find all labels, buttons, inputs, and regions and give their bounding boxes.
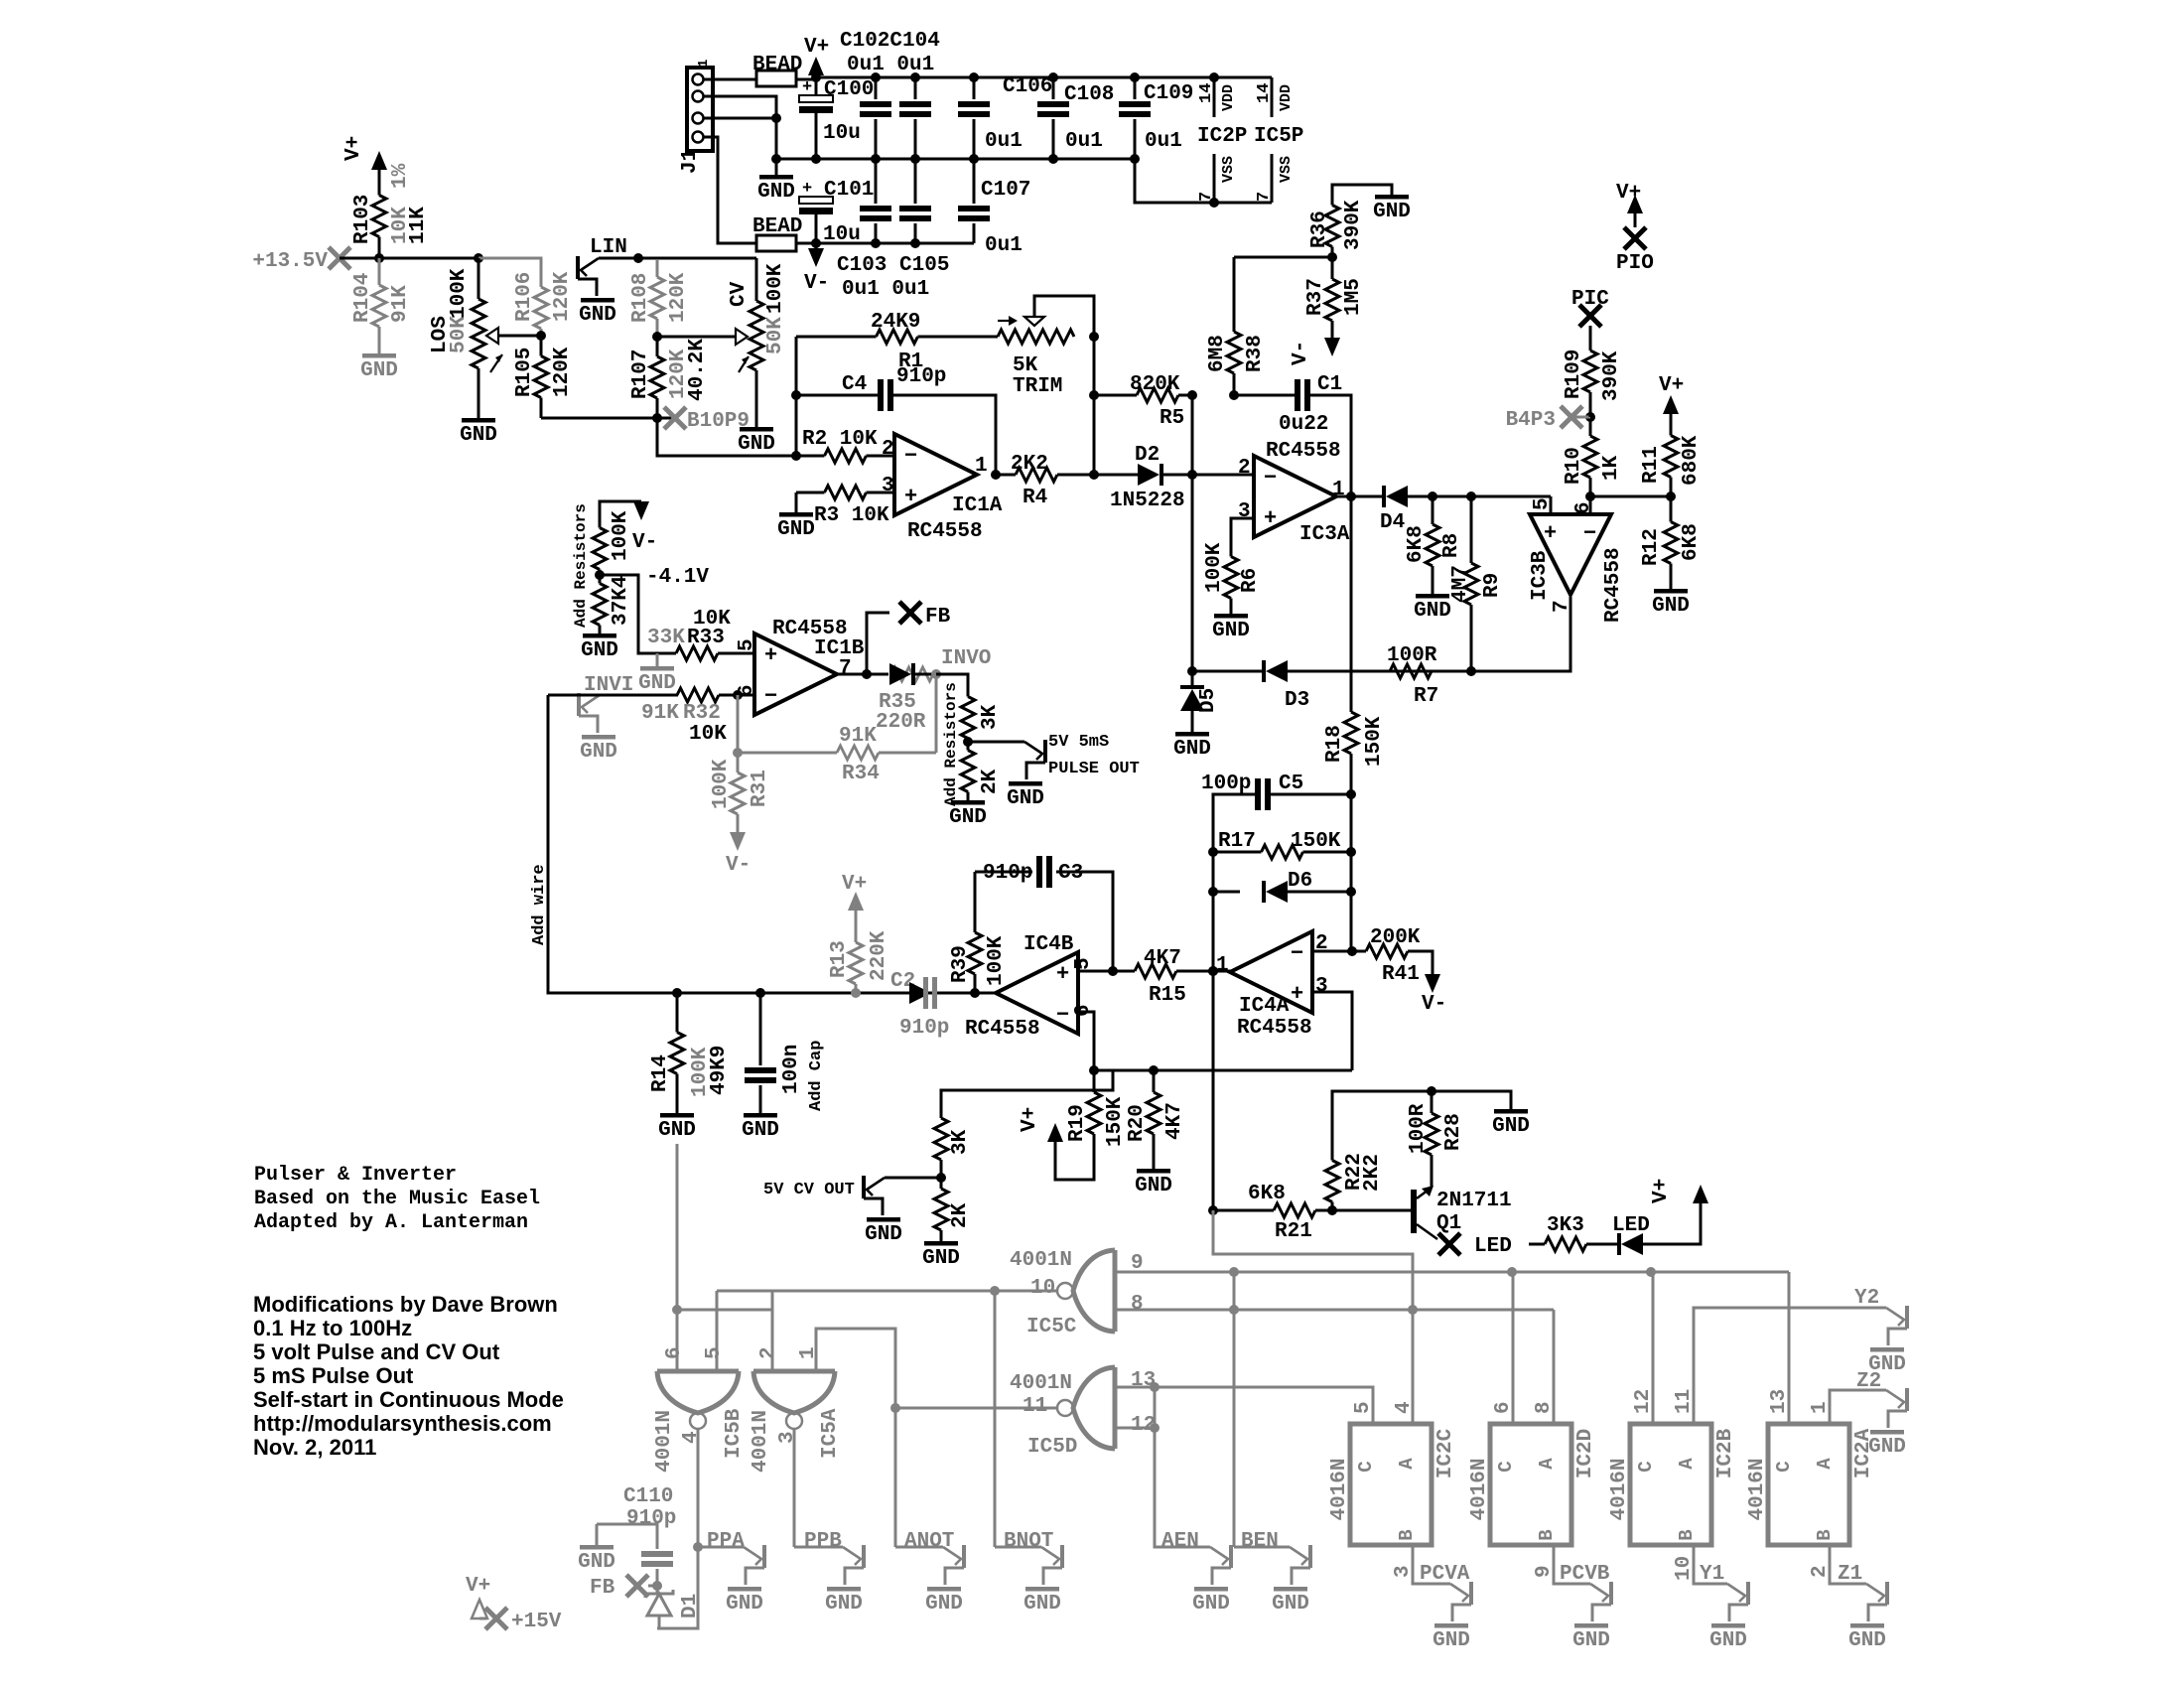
resistor 37K4 (Add Resistors) <box>599 575 602 584</box>
resistor R106 120K (gray) <box>540 280 543 287</box>
svg-text:5: 5 <box>1531 497 1554 510</box>
svg-text:220K: 220K <box>868 930 890 981</box>
IC5P power pins <box>1271 77 1274 117</box>
svg-text:R104: R104 <box>351 273 374 323</box>
svg-text:6K8: 6K8 <box>1248 1183 1286 1205</box>
wire IC3B pin6 row <box>1590 495 1671 498</box>
op-amp IC1B <box>754 633 837 715</box>
svg-text:3: 3 <box>776 1431 799 1444</box>
svg-text:V+: V+ <box>1019 1107 1041 1132</box>
svg-text:D5: D5 <box>1197 688 1220 713</box>
svg-text:5: 5 <box>703 1346 726 1359</box>
svg-text:IC2P: IC2P <box>1197 125 1247 148</box>
wire rail to R106 (gray) <box>478 258 541 280</box>
node FB (gray) <box>626 1575 648 1597</box>
svg-text:+15V: +15V <box>511 1611 562 1633</box>
svg-text:100p: 100p <box>1201 773 1251 795</box>
svg-text:2K2: 2K2 <box>1011 453 1048 476</box>
resistor R20 4K7 <box>1153 1070 1156 1092</box>
ground (R8) <box>1416 594 1449 599</box>
diode D3 <box>1288 670 1390 673</box>
svg-text:C100: C100 <box>824 78 874 101</box>
resistor R18 150K <box>1350 671 1353 712</box>
svg-text:4K7: 4K7 <box>1144 947 1181 970</box>
svg-text:R10: R10 <box>1563 447 1585 485</box>
svg-text:R8: R8 <box>1440 533 1463 558</box>
svg-text:C: C <box>1355 1461 1377 1472</box>
power symbol V- (Add Resistors) <box>633 501 649 520</box>
svg-text:100R: 100R <box>1387 644 1437 667</box>
svg-text:PIO: PIO <box>1616 252 1654 275</box>
svg-text:GND: GND <box>360 359 398 382</box>
svg-text:100K: 100K <box>448 268 471 319</box>
svg-text:R36: R36 <box>1308 211 1331 248</box>
svg-text:GND: GND <box>579 304 616 327</box>
wire J1 pin3 <box>704 117 776 120</box>
resistor R10 1K <box>1589 417 1592 436</box>
svg-text:LED: LED <box>1612 1214 1650 1237</box>
wire IC2B pin11 to Y2 (gray) <box>1694 1308 1886 1424</box>
svg-text:RC4558: RC4558 <box>965 1018 1040 1041</box>
wire INVI row <box>548 694 678 697</box>
svg-text:2K: 2K <box>949 1202 972 1228</box>
svg-text:4016N: 4016N <box>1608 1458 1631 1520</box>
svg-text:3: 3 <box>1392 1565 1415 1578</box>
svg-text:R7: R7 <box>1414 685 1438 708</box>
wire mid vertical <box>1350 794 1353 951</box>
ground (LOS) <box>462 418 495 423</box>
trimpot 5K TRIM <box>998 330 1074 344</box>
resistor R107 120K/40.2K <box>656 337 659 356</box>
node top rail junctions <box>811 72 821 82</box>
svg-text:B: B <box>1814 1529 1836 1540</box>
svg-text:4M7: 4M7 <box>1449 565 1472 603</box>
svg-text:R108: R108 <box>629 273 652 323</box>
svg-text:A: A <box>1676 1458 1698 1470</box>
svg-text:14: 14 <box>1197 83 1216 103</box>
svg-text:3K: 3K <box>979 704 1002 730</box>
switch IC2C 4016N <box>1350 1424 1432 1545</box>
svg-text:IC2D: IC2D <box>1574 1429 1597 1478</box>
wire VSS link <box>1135 159 1272 203</box>
svg-text:4: 4 <box>680 1431 703 1444</box>
ground (C110 gray) <box>596 1524 599 1545</box>
svg-text:GND: GND <box>949 806 987 829</box>
ground (R20) <box>1137 1169 1170 1174</box>
svg-text:2: 2 <box>1809 1565 1832 1578</box>
svg-text:PCVA: PCVA <box>1420 1563 1470 1586</box>
svg-text:R15: R15 <box>1149 984 1186 1007</box>
svg-text:PPB: PPB <box>804 1530 842 1553</box>
svg-text:V-: V- <box>726 854 751 877</box>
ground (D5) <box>1175 732 1209 737</box>
svg-text:3K: 3K <box>949 1129 972 1155</box>
svg-text:0u1: 0u1 <box>985 234 1023 257</box>
capacitor C1 0u22 <box>1234 394 1295 397</box>
svg-text:V+: V+ <box>342 136 365 161</box>
svg-text:10u: 10u <box>823 122 861 145</box>
svg-text:R34: R34 <box>842 763 880 785</box>
svg-text:1: 1 <box>975 455 988 478</box>
svg-text:FB: FB <box>925 606 951 629</box>
svg-text:PCVB: PCVB <box>1560 1563 1610 1586</box>
svg-text:GND: GND <box>742 1119 779 1142</box>
svg-text:0u1 0u1: 0u1 0u1 <box>842 278 929 301</box>
svg-text:C5: C5 <box>1279 773 1303 795</box>
svg-text:C1: C1 <box>1317 373 1342 396</box>
svg-text:0.1 Hz to 100Hz: 0.1 Hz to 100Hz <box>253 1316 412 1340</box>
svg-text:8: 8 <box>1533 1401 1556 1414</box>
svg-text:R13: R13 <box>828 940 851 978</box>
capacitor C5 100p <box>1271 793 1351 796</box>
resistor R2 10K <box>796 455 825 458</box>
svg-text:R9: R9 <box>1481 573 1504 598</box>
svg-text:4016N: 4016N <box>1328 1458 1351 1520</box>
capacitor C3 910p feedback <box>974 872 977 932</box>
svg-text:6K8: 6K8 <box>1405 525 1428 563</box>
svg-text:7: 7 <box>839 657 852 680</box>
wire -4.1V node to R33 <box>600 575 657 653</box>
resistor R12 6K8 <box>1670 496 1673 522</box>
svg-text:11: 11 <box>1023 1395 1047 1418</box>
svg-text:14: 14 <box>1255 83 1274 103</box>
wire to IC3B pin5 <box>1530 495 1551 498</box>
gate IC5C 4001N <box>1113 1250 1118 1332</box>
svg-text:Adapted by A. Lanterman: Adapted by A. Lanterman <box>254 1211 528 1234</box>
wire B10P9 row to R2 <box>657 418 796 456</box>
svg-text:IC2B: IC2B <box>1714 1428 1737 1478</box>
svg-text:FB: FB <box>590 1577 615 1600</box>
resistor 3K3 (LED) <box>1529 1243 1545 1246</box>
svg-text:BEAD: BEAD <box>752 215 802 238</box>
resistor R33 33K/10K <box>657 652 676 655</box>
svg-text:+: + <box>802 78 812 97</box>
resistor R11 680K <box>1670 416 1673 436</box>
transistor Q1 2N1711 <box>1332 1209 1411 1212</box>
svg-text:C: C <box>1773 1461 1795 1472</box>
jack 5V CV OUT <box>885 1177 941 1180</box>
wire IC2B pin12 (gray) <box>1652 1272 1655 1424</box>
svg-text:8: 8 <box>1131 1293 1144 1316</box>
wire R22 to GND hook <box>1332 1091 1511 1152</box>
resistor R28 100R <box>1431 1091 1433 1113</box>
svg-text:D1: D1 <box>679 1594 702 1618</box>
svg-text:R14: R14 <box>649 1055 672 1092</box>
power symbol V- (bottom rail) <box>815 243 818 248</box>
svg-text:R31: R31 <box>749 770 771 807</box>
svg-text:120K: 120K <box>551 347 574 397</box>
svg-text:C108: C108 <box>1064 83 1114 106</box>
svg-text:GND: GND <box>578 1551 615 1574</box>
wire CV wiper to R107/R108 node <box>657 336 736 339</box>
svg-text:6K8: 6K8 <box>1680 523 1703 561</box>
svg-text:0u1: 0u1 <box>1065 130 1103 153</box>
wire IC5A pin2 stub (gray) <box>771 1291 774 1371</box>
ferrite bead BEAD (top) <box>756 70 796 86</box>
svg-text:3K3: 3K3 <box>1547 1214 1584 1237</box>
wire pin12/13 tie down to AEN (gray) <box>1155 1387 1210 1547</box>
wire feedback left vertical <box>795 337 798 456</box>
svg-text:6: 6 <box>1492 1401 1515 1414</box>
jack PPA (gray) <box>698 1546 744 1549</box>
resistor R36 390K <box>1332 185 1392 195</box>
node IC1A output <box>991 470 1001 480</box>
resistor R6 100K <box>1231 518 1254 541</box>
jack PPB (gray) <box>794 1546 843 1549</box>
svg-text:RC4558: RC4558 <box>1602 547 1625 623</box>
svg-text:VSS: VSS <box>1278 156 1295 183</box>
svg-text:5K: 5K <box>1013 354 1038 377</box>
wire bottom row pin6/pin3 <box>1094 1069 1352 1072</box>
svg-text:100K: 100K <box>985 935 1008 986</box>
svg-text:11K: 11K <box>407 207 430 244</box>
wire IC5D pin13 row (gray) <box>1115 1387 1373 1424</box>
svg-text:4001N: 4001N <box>653 1410 676 1473</box>
jack 5V 5mS PULSE OUT <box>968 741 1024 744</box>
svg-text:R28: R28 <box>1442 1113 1465 1151</box>
svg-text:Z1: Z1 <box>1838 1563 1862 1586</box>
svg-text:RC4558: RC4558 <box>1266 440 1341 463</box>
switch IC2D 4016N <box>1490 1424 1571 1545</box>
svg-text:C: C <box>1635 1461 1657 1472</box>
svg-text:C4: C4 <box>842 373 867 396</box>
svg-text:V+: V+ <box>1659 374 1684 397</box>
svg-text:91K: 91K <box>641 702 679 725</box>
wire R14 gnd to IC5B pin6 (gray) <box>676 1144 679 1371</box>
resistor R104 91K (gray) <box>378 258 381 285</box>
ground (R36) <box>1375 195 1409 200</box>
svg-text:R37: R37 <box>1304 278 1327 316</box>
wire IC5A pin1 riser (gray) <box>816 1329 895 1408</box>
svg-text:PPA: PPA <box>707 1530 745 1553</box>
svg-text:+: + <box>1291 982 1303 1007</box>
svg-text:1K: 1K <box>1600 455 1623 481</box>
svg-text:C103 C105: C103 C105 <box>837 254 949 277</box>
svg-text:C106: C106 <box>1003 75 1052 98</box>
capacitor C102 0u1 <box>875 77 878 99</box>
wire IC2A pin2 to Z1 (gray) <box>1830 1545 1866 1584</box>
svg-text:Modifications by Dave Brown: Modifications by Dave Brown <box>253 1292 558 1317</box>
svg-text:IC2C: IC2C <box>1434 1428 1457 1478</box>
svg-text:PULSE OUT: PULSE OUT <box>1048 760 1140 778</box>
wire IC2C pin5 (gray) <box>1372 1387 1375 1424</box>
svg-text:R6: R6 <box>1239 568 1262 593</box>
svg-text:GND: GND <box>825 1593 863 1616</box>
svg-text:91K: 91K <box>389 285 412 323</box>
svg-text:R38: R38 <box>1244 335 1267 372</box>
resistor R108 120K (gray) <box>656 259 659 277</box>
svg-text:910p: 910p <box>983 862 1032 885</box>
svg-text:2N1711: 2N1711 <box>1436 1190 1512 1212</box>
wire bead1 to V+ rail <box>796 78 816 81</box>
svg-text:D2: D2 <box>1135 444 1160 467</box>
svg-text:C109: C109 <box>1144 82 1193 105</box>
svg-text:100n: 100n <box>780 1045 803 1094</box>
resistor R105 120K <box>540 336 543 356</box>
svg-text:V+: V+ <box>842 873 867 896</box>
svg-text:Y2: Y2 <box>1854 1287 1879 1310</box>
svg-text:GND: GND <box>925 1593 963 1616</box>
svg-text:R33: R33 <box>687 627 725 649</box>
svg-text:IC1A: IC1A <box>952 494 1003 517</box>
svg-text:1N5228: 1N5228 <box>1110 490 1185 512</box>
svg-text:220R: 220R <box>876 711 926 734</box>
svg-text:10: 10 <box>1030 1277 1055 1300</box>
svg-text:10: 10 <box>1673 1556 1696 1581</box>
svg-text:91K: 91K <box>839 725 877 748</box>
svg-text:GND: GND <box>1433 1629 1470 1652</box>
svg-text:390K: 390K <box>1600 351 1623 401</box>
svg-text:R41: R41 <box>1382 963 1420 986</box>
wire IC3B output <box>1471 597 1570 671</box>
svg-text:PIC: PIC <box>1571 288 1609 311</box>
svg-text:100K: 100K <box>710 759 733 809</box>
svg-text:R3 10K: R3 10K <box>814 504 889 527</box>
resistor R31 100K (gray) <box>737 695 740 753</box>
ground (2K) <box>951 800 985 805</box>
svg-text:6M8: 6M8 <box>1206 335 1229 372</box>
op-amp IC1A <box>894 434 977 515</box>
svg-text:IC5C: IC5C <box>1026 1316 1077 1338</box>
wire IC5C out to IC5B pin5 (gray) <box>717 1290 995 1293</box>
svg-text:+13.5V: +13.5V <box>252 250 328 273</box>
svg-text:820K: 820K <box>1130 373 1180 396</box>
gate IC5D 4001N <box>1113 1367 1118 1449</box>
svg-text:CV: CV <box>728 281 751 307</box>
svg-text:150K: 150K <box>1291 830 1341 853</box>
switch IC2A 4016N <box>1768 1424 1849 1545</box>
node B10P9 <box>664 407 686 429</box>
wire J1 pin1 to BEAD1 <box>704 78 756 81</box>
power symbol V- (R37) <box>1324 338 1340 356</box>
svg-text:GND: GND <box>1192 1593 1230 1616</box>
svg-text:390K: 390K <box>1342 200 1365 250</box>
svg-text:7: 7 <box>1255 192 1274 202</box>
svg-text:B: B <box>1396 1529 1418 1540</box>
svg-text:10K: 10K <box>689 723 727 746</box>
capacitor C103 0u1 <box>875 159 878 204</box>
svg-text:C110: C110 <box>623 1485 673 1508</box>
wire IC2A pin13 (gray) <box>1788 1272 1791 1424</box>
svg-text:11: 11 <box>1673 1389 1696 1414</box>
diode D4 <box>1382 486 1386 507</box>
svg-text:VDD: VDD <box>1220 84 1237 111</box>
resistor 2K (pulse out) <box>967 742 970 751</box>
wire top rail <box>816 76 1272 79</box>
svg-text:GND: GND <box>1173 738 1211 761</box>
resistor R7 100R <box>1390 670 1471 673</box>
ground (100n) <box>744 1113 777 1118</box>
capacitor C101 10u <box>799 197 833 204</box>
resistor R109 390K <box>1589 326 1592 351</box>
wire J1 pin2 <box>704 96 776 118</box>
svg-text:Pulser & Inverter: Pulser & Inverter <box>254 1164 457 1187</box>
wire IC5C pin8 row (gray) <box>1115 1309 1554 1312</box>
svg-text:RC4558: RC4558 <box>907 520 983 543</box>
svg-text:2: 2 <box>757 1346 780 1359</box>
svg-text:Add Resistors: Add Resistors <box>572 503 590 628</box>
ground (R104, gray) <box>362 353 396 358</box>
zener diode D1 (gray) <box>645 1590 673 1598</box>
wire R38 top link <box>1234 256 1332 259</box>
capacitor C107 0u1 <box>973 159 976 204</box>
ground (R6) <box>1214 614 1248 619</box>
svg-text:100K: 100K <box>1203 542 1226 593</box>
svg-text:GND: GND <box>580 741 617 764</box>
svg-text:200K: 200K <box>1370 926 1421 949</box>
resistor R1 24K9 <box>796 336 877 339</box>
svg-text:GND: GND <box>1135 1175 1172 1197</box>
wire +13.5V rail <box>340 257 478 260</box>
svg-text:V-: V- <box>1290 341 1312 365</box>
wire J1 pin2/3 down to GND <box>775 118 778 175</box>
resistor R8 6K8 <box>1432 496 1434 524</box>
svg-text:R109: R109 <box>1563 350 1585 399</box>
svg-text:4001N: 4001N <box>750 1410 772 1473</box>
resistor 3K (CV out) <box>940 1117 943 1120</box>
wire IC5C pin9 row (gray) <box>1115 1271 1789 1274</box>
svg-text:+: + <box>764 643 777 668</box>
wire IC2D pin8 (gray) <box>1553 1310 1556 1424</box>
resistor R5 820K <box>1094 394 1137 397</box>
op-amp IC3B <box>1530 514 1611 595</box>
svg-text:5V CV OUT: 5V CV OUT <box>763 1181 855 1199</box>
node INVO (gray) <box>931 669 941 679</box>
svg-text:Add Resistors: Add Resistors <box>942 682 960 806</box>
diode D6 <box>1213 891 1240 894</box>
svg-text:0u1: 0u1 <box>985 130 1023 153</box>
svg-text:120K: 120K <box>551 271 574 322</box>
svg-text:13: 13 <box>1768 1389 1791 1414</box>
wire trim junction down <box>1093 337 1096 475</box>
wire IC5A output to PPB (gray) <box>793 1429 796 1547</box>
svg-text:50K: 50K <box>764 317 787 354</box>
wire bottom rail <box>816 242 974 245</box>
svg-text:GND: GND <box>738 433 775 456</box>
svg-text:−: − <box>904 444 917 469</box>
resistor R15 4K7 <box>1114 970 1135 973</box>
svg-text:+: + <box>802 180 812 199</box>
svg-text:R103: R103 <box>351 195 374 244</box>
resistor R41 200K <box>1352 950 1366 953</box>
svg-text:http://modularsynthesis.com: http://modularsynthesis.com <box>253 1411 552 1436</box>
wire R21 node to control net (gray) <box>1213 1210 1413 1310</box>
svg-text:680K: 680K <box>1680 435 1703 486</box>
svg-text:D6: D6 <box>1288 870 1312 893</box>
svg-text:Add Cap: Add Cap <box>807 1041 826 1111</box>
svg-text:GND: GND <box>865 1223 902 1246</box>
svg-text:IC5P: IC5P <box>1254 125 1303 148</box>
svg-text:+: + <box>1544 521 1557 546</box>
svg-text:2: 2 <box>1238 457 1251 480</box>
svg-text:+: + <box>904 485 917 509</box>
svg-text:GND: GND <box>922 1247 960 1270</box>
power symbol V+ (LED) <box>1643 1203 1701 1244</box>
svg-text:R12: R12 <box>1640 528 1663 566</box>
svg-text:IC3A: IC3A <box>1299 523 1350 546</box>
capacitor 100n Add Cap <box>755 988 765 998</box>
svg-text:9: 9 <box>1533 1565 1556 1578</box>
capacitor C106 0u1 <box>973 77 976 99</box>
svg-text:Add wire: Add wire <box>530 864 549 945</box>
svg-text:R32: R32 <box>683 702 721 725</box>
svg-text:−: − <box>1583 521 1596 546</box>
svg-text:GND: GND <box>726 1593 763 1616</box>
svg-text:GND: GND <box>658 1119 696 1142</box>
wire R105 bottom to B10P9 <box>541 417 675 420</box>
resistor R19 150K <box>1093 1070 1096 1092</box>
svg-text:RC4558: RC4558 <box>1237 1017 1312 1040</box>
